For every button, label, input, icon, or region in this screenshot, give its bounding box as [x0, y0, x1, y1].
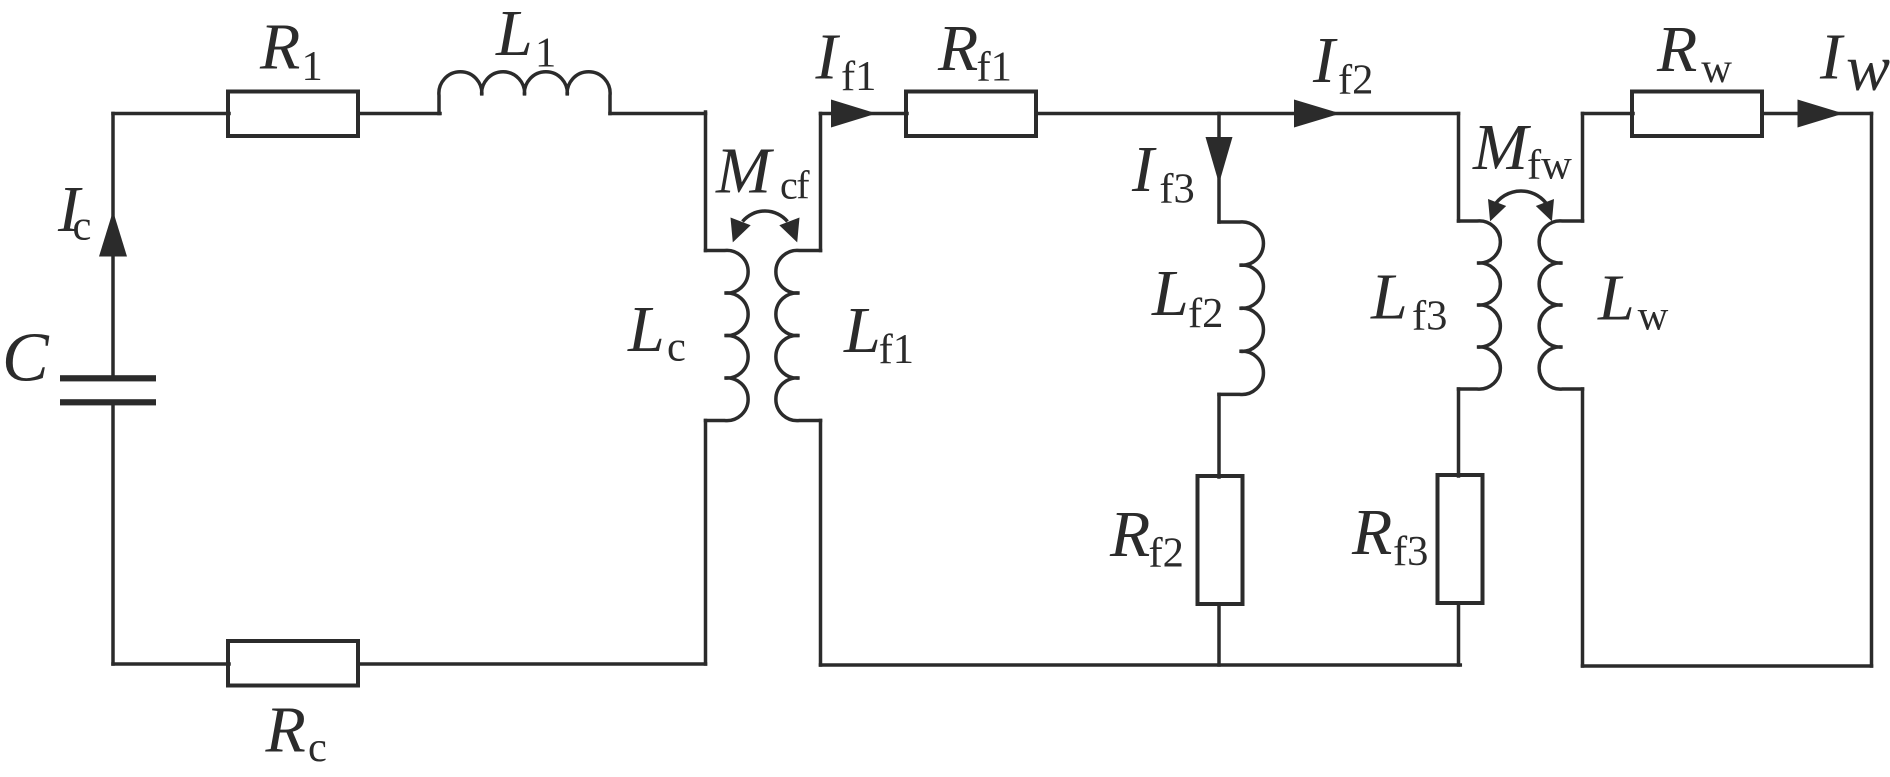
wire: top-left horizontal to R1 — [113, 112, 229, 116]
wire: Lc top vertical — [704, 112, 708, 251]
wire: Lf3 top vertical — [1457, 114, 1461, 222]
svg-text:R: R — [1351, 496, 1392, 569]
svg-text:1: 1 — [535, 30, 556, 77]
svg-text:L: L — [1370, 261, 1408, 334]
mutual inductance arrow Mfw — [1494, 191, 1548, 206]
wire: top rail Lf1 corner to Rf1 — [821, 112, 908, 116]
svg-text:w: w — [1638, 293, 1669, 340]
svg-text:cf: cf — [780, 163, 810, 208]
wire: Rw to top-right corner — [1762, 112, 1872, 116]
wire: Lf1 top vertical — [819, 114, 823, 251]
wire: If3 branch vertical from junction — [1217, 114, 1221, 223]
resistor Rf2 — [1198, 476, 1243, 604]
svg-text:c: c — [308, 724, 327, 771]
svg-text:L: L — [627, 293, 665, 366]
wire: top rail Rf1 to right corner (through If3 junction) — [1036, 112, 1459, 116]
svg-text:L: L — [495, 0, 533, 70]
svg-text:f1: f1 — [879, 326, 914, 373]
svg-text:R: R — [1109, 498, 1150, 571]
resistor R1 — [228, 92, 358, 137]
inductor Lf3 (transformer 2 primary) — [1459, 221, 1501, 389]
svg-text:I: I — [1131, 133, 1157, 206]
svg-text:L: L — [1151, 257, 1189, 330]
inductor Lf1 (transformer 1 secondary) — [776, 250, 821, 420]
wire: Lf3 to Rf3 — [1457, 389, 1461, 476]
svg-text:L: L — [843, 294, 881, 367]
wire: bottom-right rail — [1583, 664, 1872, 668]
svg-text:f1: f1 — [841, 53, 876, 100]
svg-text:w: w — [1701, 45, 1732, 92]
wire: Lf1 bottom vertical — [819, 421, 823, 666]
svg-text:w: w — [1846, 32, 1890, 105]
svg-text:f2: f2 — [1149, 530, 1184, 577]
svg-text:M: M — [715, 135, 775, 208]
wire: R1 to L1 — [358, 112, 440, 116]
wire: top rail Lw to Rw — [1583, 112, 1634, 116]
wire: Lw top vertical — [1581, 114, 1585, 222]
arrow Ic (current up) — [99, 211, 127, 257]
capacitor C plates — [60, 211, 156, 405]
svg-text:R: R — [937, 12, 978, 85]
resistor Rc — [228, 641, 358, 686]
resistor Rf1 — [906, 92, 1036, 137]
wire: Rf2 to bottom rail — [1217, 604, 1221, 665]
wire: Lf2 to Rf2 — [1217, 394, 1221, 477]
svg-text:f3: f3 — [1393, 528, 1428, 575]
resistor Rw — [1632, 92, 1762, 137]
svg-text:f3: f3 — [1159, 166, 1194, 213]
wire: left vertical upper (capacitor to top-left corner) — [111, 114, 115, 378]
svg-text:f1: f1 — [977, 44, 1012, 91]
svg-text:fw: fw — [1527, 142, 1572, 189]
wire: left vertical lower (capacitor to bottom rail) — [111, 404, 115, 664]
svg-text:f2: f2 — [1338, 57, 1373, 104]
svg-text:I: I — [1312, 24, 1338, 97]
inductor Lf2 — [1219, 222, 1263, 395]
wire: middle bottom rail — [821, 663, 1461, 667]
inductor Lw (transformer 2 secondary) — [1539, 221, 1582, 389]
wire: L1 to transformer corner — [610, 112, 706, 116]
arrow If1 (current right) — [831, 100, 877, 128]
svg-text:I: I — [815, 21, 841, 94]
svg-text:C: C — [2, 320, 50, 397]
wire: bottom-left rail right segment (Lc to Rc) — [358, 662, 706, 666]
mutual inductance arrow Mcf — [743, 211, 788, 222]
arrow If3 (current down) — [1206, 137, 1233, 184]
arrow Iw (current right) — [1798, 100, 1844, 128]
resistor Rf3 — [1438, 475, 1483, 603]
svg-text:L: L — [1597, 262, 1635, 335]
svg-text:R: R — [1656, 13, 1697, 86]
svg-text:R: R — [265, 694, 306, 767]
wire: Lw bottom vertical — [1581, 389, 1585, 666]
svg-text:1: 1 — [302, 43, 323, 90]
arrow If2 (current right) — [1294, 100, 1341, 128]
svg-text:c: c — [667, 324, 686, 371]
wire: bottom-left rail left segment (Rc to capacitor branch) — [113, 662, 229, 666]
svg-text:f2: f2 — [1188, 290, 1223, 337]
wire: Lc bottom vertical — [704, 421, 708, 665]
svg-text:R: R — [259, 11, 300, 84]
wire: Rf3 to bottom rail end — [1457, 603, 1461, 665]
svg-text:f3: f3 — [1412, 293, 1447, 340]
svg-text:I: I — [1819, 21, 1845, 94]
wire: right vertical — [1870, 114, 1874, 667]
svg-text:c: c — [73, 203, 92, 250]
inductor L1 — [439, 72, 610, 114]
inductor Lc (transformer primary) — [706, 250, 749, 420]
svg-text:M: M — [1472, 111, 1532, 184]
